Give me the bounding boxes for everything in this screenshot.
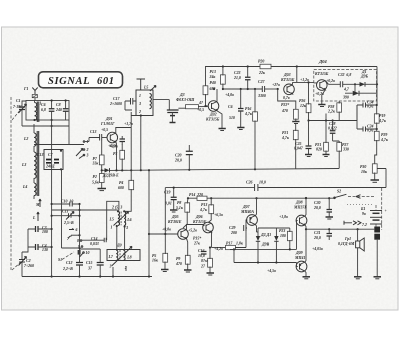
svg-text:Д9В: Д9В [261,243,270,247]
svg-text:820: 820 [316,148,322,152]
svg-text:Р29: Р29 [381,133,387,137]
ferrite core L2-L4 [37,131,39,196]
IF transformer box L7 L8 [107,227,140,277]
ground under R21b [323,155,330,157]
svg-text:+4,5в: +4,5в [267,269,276,273]
svg-text:КТ315Б: КТ315Б [205,118,220,122]
ground under C30 [326,217,334,219]
vertical wire x165 [164,188,166,254]
capacitor C3 [28,226,52,234]
wire C3 C4 left link [22,229,28,252]
resistor R2 [92,170,104,188]
transistor T5 [162,215,188,239]
svg-text:Д04: Д04 [318,59,327,64]
svg-text:601: 601 [97,76,115,87]
coil L1 [35,101,42,123]
svg-text:МП37Б: МП37Б [293,206,307,210]
svg-text:L8: L8 [126,256,131,260]
box C7 [37,150,63,171]
capacitor C32 [329,73,360,93]
svg-text:27к: 27к [193,242,201,246]
switch contacts 1 2 3 [79,140,89,159]
resistor R4 [118,170,134,196]
capacitor C5 pair [120,136,126,145]
svg-text:470: 470 [281,109,288,113]
node dots x52 [51,228,53,278]
resistor R13b [199,198,223,223]
svg-text:4,7к: 4,7к [281,136,290,140]
svg-text:1,8к: 1,8к [236,242,244,246]
node dots top bus [222,65,298,67]
resistor R17 [214,220,247,251]
node x149 [112,233,150,278]
jack socket blocks [374,227,380,277]
svg-text:SIGNAL: SIGNAL [48,76,90,87]
svg-text:10: 10 [86,251,90,255]
resistor R29 [374,131,389,164]
tap L arrow [32,212,39,221]
contact 6 [69,228,78,232]
resistor R23 [279,228,292,249]
svg-text:240Д: 240Д [45,165,55,169]
capacitor C24 [357,125,378,133]
wire AF rail [188,197,334,199]
antenna G1 [23,87,38,101]
svg-text:С30: С30 [314,201,321,205]
dashed bus link [381,188,383,230]
svg-text:Р20: Р20 [258,60,264,64]
svg-text:180: 180 [280,234,286,238]
capacitor C14 [82,237,107,246]
svg-text:4,7к: 4,7к [244,112,253,116]
node dots S1 [78,247,101,278]
svg-text:2: 2 [86,148,89,152]
trimmer arrow C7 [76,149,83,157]
wire mid rail [230,248,297,250]
svg-text:2×1600: 2×1600 [109,102,122,106]
svg-text:L6: L6 [126,218,131,222]
svg-text:Р23: Р23 [279,229,285,233]
svg-text:4,7к: 4,7к [199,208,208,212]
wire low rail [234,249,297,262]
transistor T7 [240,198,257,232]
svg-text:1: 1 [139,94,141,98]
svg-text:8?м: 8?м [201,259,208,263]
wire contact to column [85,141,89,143]
capacitor C13 [89,130,102,142]
svg-text:7÷260: 7÷260 [24,264,34,268]
capacitor C30 [313,198,332,217]
svg-text:Р9: Р9 [176,257,180,261]
svg-text:L2: L2 [23,137,28,141]
svg-text:Р40: Р40 [210,81,216,85]
svg-text:+4,0в: +4,0в [225,93,234,97]
transistor T8 [279,198,307,249]
svg-text:3300: 3300 [257,94,266,98]
svg-text:+1,7в: +1,7в [124,122,133,126]
svg-text:+1,2в: +1,2в [300,78,309,82]
capacitor C31 [312,229,332,251]
svg-text:20,0: 20,0 [174,159,182,163]
capacitor C6 [41,101,54,121]
diode D2 [101,168,119,177]
svg-text:100: 100 [42,230,48,234]
svg-text:2 (5) 3: 2 (5) 3 [111,206,122,210]
svg-text:+0,5: +0,5 [101,128,108,132]
svg-text:Р2: Р2 [93,175,97,179]
svg-text:Р13: Р13 [210,70,216,74]
resistor R15 label [193,237,201,246]
svg-text:7.2: 7.2 [362,223,367,227]
svg-text:L4: L4 [22,185,27,189]
capacitor C10 [52,200,80,207]
svg-text:0,033: 0,033 [90,242,99,246]
resistor R18 [200,246,212,272]
svg-text:+6,5в: +6,5в [214,213,223,217]
diode D1b [258,228,290,263]
node dots bus A [121,168,256,171]
coil L3 [21,152,36,178]
svg-text:4?: 4? [198,101,203,105]
resistor R30 [360,164,386,188]
svg-text:510: 510 [229,116,235,120]
svg-text:Б1: Б1 [360,207,365,211]
svg-text:Д07: Д07 [242,205,251,209]
resistor R28 [327,101,342,121]
resistor R22 [278,89,299,121]
resistor R40 [203,67,208,107]
svg-text:34к: 34к [209,75,217,79]
IF transformer L5 [136,86,156,116]
svg-text:Р21: Р21 [282,131,288,135]
svg-text:0,047: 0,047 [294,147,304,151]
wire right drop [68,120,70,145]
svg-text:1: 1 [111,226,113,230]
svg-text:Д3: Д3 [179,93,185,97]
svg-text:Д2Д9В-Е: Д2Д9В-Е [102,174,119,178]
vertical x132 [130,112,132,170]
capacitor C19 [164,187,177,210]
svg-text:18,0: 18,0 [259,181,266,185]
trimmer capacitor C18 [167,110,179,122]
ground under R18 [207,273,215,275]
svg-text:С27: С27 [258,80,266,84]
resistor R27 [337,141,349,169]
svg-text:С15: С15 [86,261,93,265]
svg-text:S1: S1 [58,258,62,262]
svg-text:Д05: Д05 [171,215,179,219]
capacitor C12 [62,248,83,277]
svg-text:С17: С17 [113,97,121,101]
svg-text:Д09: Д09 [295,251,303,255]
transistor T3 [272,73,295,100]
title box SIGNAL 601 [39,72,123,88]
phone jack plug [344,221,367,227]
coil L4 [22,183,36,196]
transistor T9 [294,229,307,276]
svg-text:470: 470 [175,262,182,266]
tap M arrow [35,199,41,207]
svg-text:5,6к: 5,6к [92,181,100,185]
svg-text:9в: 9в [362,212,366,216]
svg-text:М: М [35,203,40,207]
svg-text:Д1: Д1 [361,70,367,74]
svg-text:390: 390 [342,96,349,100]
svg-text:КТ315Б: КТ315Б [314,72,329,76]
resistor R8 [176,198,190,228]
svg-text:С6: С6 [41,103,46,107]
svg-text:+4,2в: +4,2в [214,247,223,251]
resistor R21 [281,124,298,169]
resistor R16 [244,89,257,169]
svg-text:Д06: Д06 [195,215,203,219]
svg-text:330: 330 [342,148,349,152]
bottom bus ground [22,276,152,278]
wire T5 collector to T6 base [187,225,205,230]
svg-text:4,7к: 4,7к [380,138,389,142]
capacitor C27 [257,80,278,98]
svg-text:22к: 22к [258,71,266,75]
wire T6 emitter [211,232,213,247]
resistor R14 [189,193,207,200]
svg-text:КТ315Б: КТ315Б [280,78,295,82]
wire +4v rail [223,88,262,90]
svg-text:16к: 16к [152,259,159,263]
svg-text:3: 3 [109,265,112,269]
resistor R26 [299,81,311,120]
ground under C19 [170,210,178,212]
ground under T9 [303,277,311,279]
vertical wire x149 [148,170,150,276]
svg-text:Д2,Д1: Д2,Д1 [260,233,271,237]
svg-text:С6: С6 [228,105,233,109]
wire +1.2v rail [293,67,318,83]
ground under jack [374,277,382,279]
filter D3 [176,93,208,109]
wire vertical x79 upper [79,204,81,248]
svg-text:Р27: Р27 [342,143,349,147]
svg-text:С1: С1 [16,99,21,103]
resistor R13 [220,67,225,90]
IF transformer L5 L6 [107,196,132,240]
svg-text:600: 600 [118,186,124,190]
capacitor C29 [229,225,247,235]
switch link dotted [347,203,373,205]
svg-text:Р28: Р28 [328,105,334,109]
svg-text:2,5÷В: 2,5÷В [63,221,74,225]
resistor R5 [152,253,168,269]
vertical wire x61 [62,170,80,249]
capacitor C25 [294,121,312,155]
resistor R9 [175,239,190,270]
capacitor C28 [328,121,339,142]
svg-text:С20: С20 [175,154,182,158]
ground under R22 [292,122,299,124]
svg-text:Р17: Р17 [226,242,233,246]
diode D1 [360,70,379,87]
resistor R3 [108,144,125,170]
resistor R21b 820 [315,121,328,155]
svg-text:С25: С25 [295,142,302,146]
ground under R2 [98,189,107,191]
capacitor C2 variable [19,252,34,277]
svg-text:С31: С31 [314,231,321,235]
ground under R9 [184,270,192,272]
trimmer capacitor C11 [52,210,80,226]
svg-text:21,0: 21,0 [233,76,241,80]
capacitor C17 [109,97,136,110]
ferrite antenna box [26,101,69,121]
svg-text:0,01: 0,01 [165,202,172,206]
svg-text:Р8: Р8 [177,201,181,205]
svg-text:КТ301Е: КТ301Е [167,220,182,224]
svg-text:Д9Б: Д9Б [360,75,369,79]
svg-text:+5,2в: +5,2в [188,229,197,233]
svg-text:Гр1: Гр1 [344,237,351,241]
diode D2b [256,228,271,263]
svg-text:240: 240 [55,108,62,112]
wire AGC node [309,105,358,121]
svg-text:С32 6,8: С32 6,8 [338,73,351,77]
capacitor C34 [357,101,377,130]
transistor T1 osc [100,117,133,171]
resistor R20 [258,60,271,76]
wire T5 base [149,233,178,235]
ground under R5 [161,270,169,272]
svg-text:С29: С29 [229,226,236,230]
main bus A [110,169,339,171]
svg-text:С10 10: С10 10 [61,200,73,204]
svg-text:Д02: Д02 [209,113,217,117]
svg-text:20,0: 20,0 [313,236,321,240]
svg-text:С2: С2 [26,259,31,263]
svg-text:6,8: 6,8 [41,108,46,112]
battery B1 [360,205,388,232]
svg-text:5,1к: 5,1к [176,206,184,210]
svg-text:С26: С26 [246,181,253,185]
svg-text:8: 8 [77,239,79,243]
wire L5 bottom to bus [131,116,141,171]
svg-text:МП40А: МП40А [240,210,254,214]
svg-text:+2?в: +2?в [272,83,280,87]
detector dashed box [314,70,377,102]
transistor T2 [197,89,222,128]
ground under C25 [305,155,312,157]
svg-text:Р21: Р21 [315,143,321,147]
node R22 [277,88,279,90]
svg-text:3: 3 [138,102,141,106]
svg-text:Ф0Х3-ОШ: Ф0Х3-ОШ [176,98,195,102]
capacitor C26 [246,181,266,192]
switch S2 [334,190,374,199]
svg-text:Р15*: Р15* [193,237,201,241]
switch S1 contacts [58,234,89,262]
svg-text:2,2к: 2,2к [327,110,336,114]
capacitor C15 [80,249,104,277]
svg-text:10к: 10к [361,170,368,174]
node dots antenna circuit [33,99,66,127]
capacitor C21 [228,89,245,130]
svg-text:Д08: Д08 [295,201,303,205]
svg-text:С13: С13 [37,153,44,157]
resistor R19 [374,104,387,132]
svg-text:+0,5: +0,5 [197,108,204,112]
capacitor C1 variable [13,99,27,126]
wire dashed link to C1 [12,109,21,120]
svg-text:Р19: Р19 [379,114,385,118]
wire dashed link to C2 [12,262,21,270]
diode D5 [345,91,377,96]
svg-text:20,0: 20,0 [313,206,321,210]
svg-text:200: 200 [230,231,237,235]
svg-text:Р4: Р4 [119,181,123,185]
svg-text:2: 2 [138,110,141,114]
svg-text:Г1.901Г: Г1.901Г [100,122,115,126]
svg-text:Р30: Р30 [360,165,366,169]
ground under C18 [170,122,176,124]
svg-text:33к: 33к [92,162,100,166]
resistor R7 [92,141,105,171]
wire to L5 coil [52,209,118,211]
wire L5 to trimmer [153,100,169,110]
svg-text:+0,8в: +0,8в [162,228,171,232]
wire box right [376,84,378,105]
svg-text:Р16: Р16 [245,107,251,111]
wire AF emitter rail [212,247,227,249]
resistor R33 [342,88,350,100]
svg-text:+4,05в: +4,05в [312,247,323,251]
svg-text:С12: С12 [66,261,73,265]
svg-text:S2: S2 [337,190,341,194]
ground under R30 [371,180,380,182]
switch contact blob [78,250,81,255]
vertical wire x52 [51,120,53,277]
top supply bus [206,67,378,85]
transistor T4 [314,72,335,104]
svg-text:L3: L3 [21,163,26,167]
ground under T4 [318,105,325,107]
ground under speaker [354,277,362,279]
svg-text:6: 6 [76,228,78,232]
speaker Gr1 [338,229,364,276]
capacitor C4 [28,244,52,252]
svg-text:1: 1 [87,140,89,144]
svg-text:130: 130 [42,248,48,252]
svg-text:Г1: Г1 [23,87,28,91]
main bus B [165,187,386,189]
svg-text:Д01: Д01 [105,117,113,121]
capacitor C20 [174,145,193,170]
wire coil column [33,124,35,199]
svg-text:+1,8в: +1,8в [279,215,288,219]
labels R13 R40 [209,70,217,91]
svg-text:МП41: МП41 [294,256,305,260]
capacitor C16 [198,249,208,263]
transistor T6 [188,215,213,233]
antenna dash-dot boundary line [10,97,12,270]
svg-text:Д03: Д03 [283,73,291,77]
svg-text:С23: С23 [234,71,241,75]
svg-text:Р26: Р26 [299,99,305,103]
svg-text:2,2+В: 2,2+В [62,267,73,271]
svg-text:0,7в: 0,7в [283,96,290,100]
wire bus A right end [338,168,340,170]
svg-text:L5: L5 [143,86,148,90]
svg-text:L5: L5 [109,218,114,222]
wire trimmer to D3 [178,107,186,109]
svg-text:Р22*: Р22* [281,103,289,107]
wire below antenna box [22,125,69,127]
